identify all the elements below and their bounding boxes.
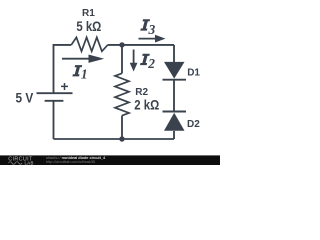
- svg-text:LAB: LAB: [25, 160, 34, 165]
- label I2: [140, 54, 155, 71]
- svg-text:1: 1: [81, 67, 88, 82]
- svg-text:R2: R2: [135, 87, 148, 98]
- svg-text:2: 2: [147, 56, 155, 71]
- svg-text:5 V: 5 V: [16, 91, 34, 106]
- diode D1: [163, 62, 187, 80]
- wire left-bottom: battery bottom plate to bottom wire: [53, 101, 55, 139]
- plus sign of battery: [61, 83, 68, 90]
- wire between D1 and D2: [173, 80, 175, 112]
- resistor R2: [115, 73, 129, 115]
- node junction dot top: [119, 42, 124, 47]
- wire bottom: [54, 138, 175, 140]
- label I1: [72, 65, 87, 82]
- svg-text:D1: D1: [187, 67, 200, 78]
- wire middle: R2 bottom to bottom wire: [121, 116, 123, 139]
- label I3: [140, 19, 155, 37]
- node junction dot bottom: [119, 136, 124, 141]
- diode D2: [163, 112, 187, 131]
- current arrow I2: [130, 50, 138, 72]
- wire right: corner down to diode D1: [173, 45, 175, 62]
- current arrow I3: [139, 35, 166, 43]
- svg-text:2 kΩ: 2 kΩ: [134, 98, 159, 113]
- wire D2 to bottom: [173, 131, 175, 139]
- resistor R1: [71, 37, 107, 51]
- voltage source V1 5V battery plates: [37, 83, 73, 101]
- wire middle: top node down to R2: [121, 45, 123, 73]
- watermark bar: [0, 155, 220, 165]
- wire top: R1 end to top-right corner: [108, 44, 174, 46]
- svg-text:R1: R1: [82, 8, 95, 19]
- current arrow I1: [62, 55, 104, 63]
- wire left-top: battery top to top-left corner to R1 start: [54, 45, 72, 93]
- svg-text:5 kΩ: 5 kΩ: [76, 19, 101, 34]
- svg-text:http://circuitlab.com/c8mak35: http://circuitlab.com/c8mak35: [46, 160, 95, 164]
- svg-text:D2: D2: [187, 119, 200, 130]
- svg-text:3: 3: [148, 22, 156, 37]
